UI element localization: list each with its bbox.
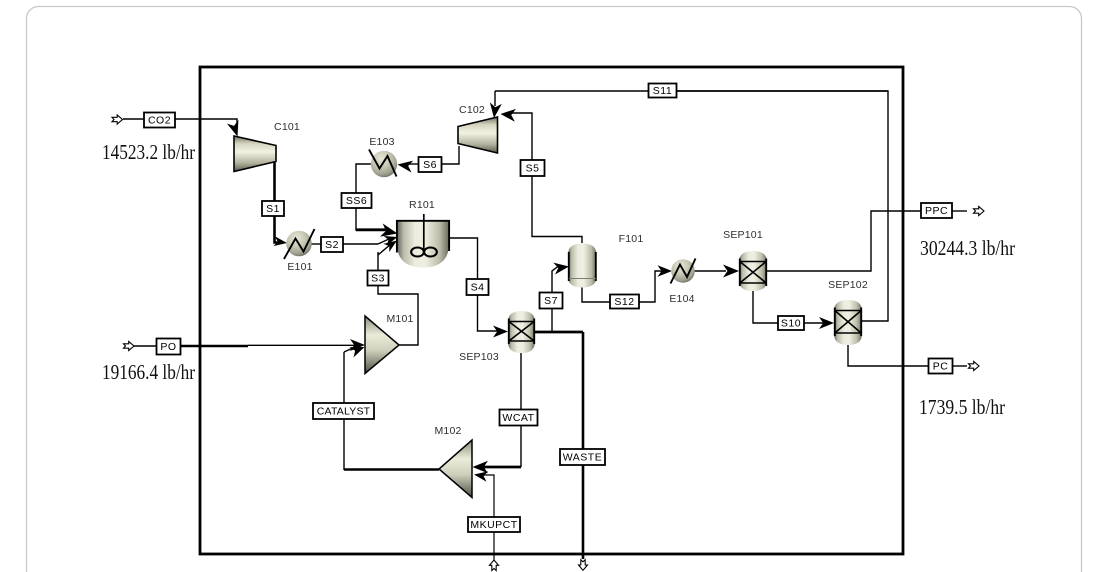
stream label S7: [540, 293, 563, 309]
svg-text:PO: PO: [160, 341, 176, 353]
svg-text:CO2: CO2: [148, 115, 171, 127]
svg-text:CATALYST: CATALYST: [317, 406, 371, 418]
flow value 1739.5: [919, 395, 1005, 419]
product arrow PC: [969, 361, 980, 370]
label E101: [287, 261, 312, 273]
stream label PO: [157, 339, 181, 355]
stream label S3: [368, 271, 389, 286]
stream S7 wire SEP103 to F101: [552, 261, 570, 332]
svg-text:S4: S4: [471, 282, 485, 294]
label SEP103: [459, 351, 499, 363]
label R101: [409, 199, 435, 211]
stream S12 wire F101 to E104: [582, 265, 672, 302]
svg-text:1739.5 lb/hr: 1739.5 lb/hr: [919, 395, 1005, 419]
label SEP101: [723, 229, 763, 241]
stream PC wire SEP102 to outlet: [848, 345, 967, 366]
heat exchanger E101: [284, 229, 315, 259]
label C101: [274, 121, 300, 133]
svg-text:E103: E103: [369, 136, 394, 148]
label E104: [669, 293, 694, 305]
separator SEP101: [739, 251, 767, 291]
svg-text:S12: S12: [614, 296, 634, 308]
flow value 30244.3: [920, 236, 1015, 260]
stream WASTE wire SEP103 to outlet: [535, 332, 583, 559]
stream S6 wire C102 to E103: [397, 146, 459, 173]
feed arrow PO: [124, 341, 135, 350]
svg-text:M101: M101: [386, 313, 413, 325]
svg-text:S11: S11: [653, 85, 672, 97]
label M102: [434, 425, 461, 437]
svg-text:14523.2 lb/hr: 14523.2 lb/hr: [102, 140, 195, 164]
svg-text:E101: E101: [287, 261, 312, 273]
separator SEP102: [834, 300, 862, 345]
stream S2 wire E101 to R101: [311, 232, 399, 245]
svg-text:WCAT: WCAT: [502, 412, 534, 424]
svg-text:SEP102: SEP102: [828, 279, 868, 291]
stream S5 wire F101 vapor to C102: [500, 108, 582, 243]
svg-text:SEP101: SEP101: [723, 229, 763, 241]
svg-text:E104: E104: [669, 293, 694, 305]
svg-text:PPC: PPC: [925, 205, 948, 217]
stream label WASTE: [560, 449, 605, 465]
svg-text:S3: S3: [371, 273, 385, 285]
feed arrow MKUPCT: [489, 560, 498, 571]
stream MKUPCT feed wire to M102: [473, 469, 494, 560]
svg-text:30244.3 lb/hr: 30244.3 lb/hr: [920, 236, 1015, 260]
stream label S10: [778, 316, 804, 330]
stream PPC wire SEP101 to outlet: [767, 211, 967, 271]
stream label CO2: [144, 113, 175, 128]
stream label MKUPCT: [468, 517, 520, 532]
reactor R101: [397, 214, 449, 268]
stream label S12: [610, 295, 639, 309]
svg-text:SEP103: SEP103: [459, 351, 499, 363]
label F101: [619, 233, 644, 245]
label SEP102: [828, 279, 868, 291]
svg-text:S6: S6: [423, 159, 437, 171]
mixer M101: [365, 316, 399, 374]
label E103: [369, 136, 394, 148]
product arrow PPC: [974, 206, 985, 215]
svg-text:R101: R101: [409, 199, 435, 211]
stream WCAT wire SEP103 to M102: [473, 353, 522, 473]
stream S10 wire SEP101 to SEP102: [753, 291, 834, 329]
stream label PPC: [921, 203, 952, 218]
feed arrow CO2: [112, 115, 123, 124]
stream label S6: [419, 157, 442, 172]
stream label S1: [262, 201, 284, 216]
stream label CATALYST: [313, 403, 374, 419]
flow value 19166.4: [102, 360, 195, 384]
stream label S4: [467, 279, 489, 295]
svg-text:S2: S2: [325, 239, 339, 251]
stream label WCAT: [500, 410, 538, 426]
separator SEP103: [508, 311, 535, 353]
stream S4 wire R101 to SEP103: [449, 238, 508, 338]
stream CATALYST wire M102 to M101: [344, 342, 439, 470]
wire E104 to SEP101: [694, 265, 739, 278]
heat exchanger E104: [671, 259, 696, 284]
compressor C102: [458, 117, 498, 153]
stream CO2 feed wire: [123, 119, 243, 138]
heat exchanger E103: [369, 150, 397, 178]
stream S11 wire SEP102 to C102: [488, 91, 888, 321]
stream S1 wire C101 to E101: [273, 162, 287, 248]
svg-text:PC: PC: [933, 361, 949, 373]
stream label S5: [521, 160, 545, 176]
stream label SS6: [342, 193, 372, 208]
waste arrow out: [578, 560, 587, 571]
stream label PC: [929, 359, 953, 374]
label M101: [386, 313, 413, 325]
svg-text:S7: S7: [544, 295, 558, 307]
stream S3 wire M101 to R101: [378, 236, 418, 345]
svg-text:C101: C101: [274, 121, 300, 133]
svg-text:SS6: SS6: [346, 195, 367, 207]
svg-text:S10: S10: [781, 318, 801, 330]
stream SS6 wire E103 to R101: [356, 164, 399, 240]
svg-text:F101: F101: [619, 233, 644, 245]
svg-text:19166.4 lb/hr: 19166.4 lb/hr: [102, 360, 195, 384]
compressor C101: [234, 136, 276, 172]
stream label S2: [321, 237, 343, 252]
svg-text:C102: C102: [459, 104, 485, 116]
svg-text:S1: S1: [266, 203, 280, 215]
svg-text:M102: M102: [434, 425, 461, 437]
svg-text:MKUPCT: MKUPCT: [470, 519, 517, 531]
flash drum F101: [568, 244, 597, 288]
stream PO feed wire to M101: [134, 339, 365, 351]
label C102: [459, 104, 485, 116]
flow value 14523.2: [102, 140, 195, 164]
svg-text:S5: S5: [526, 163, 540, 175]
mixer M102: [439, 440, 472, 498]
svg-text:WASTE: WASTE: [563, 452, 602, 464]
stream label S11: [649, 84, 677, 98]
